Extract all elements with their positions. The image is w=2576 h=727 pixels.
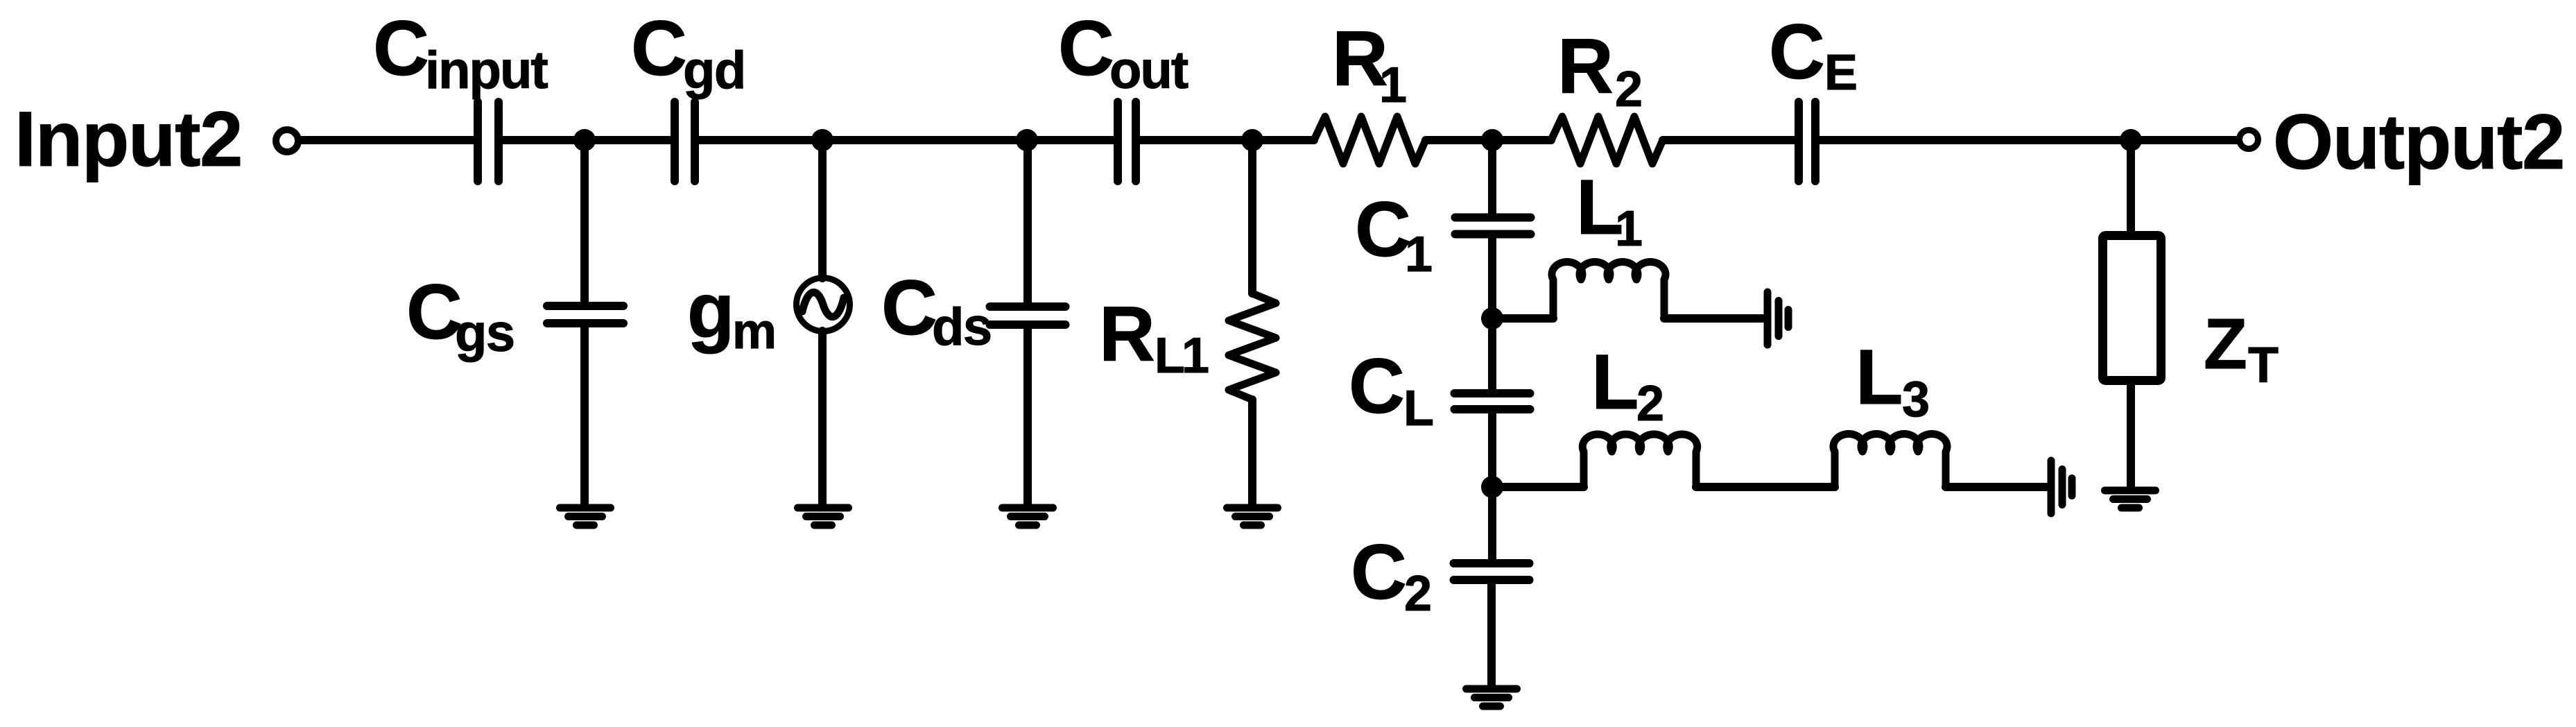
svg-text:gd: gd [683,41,745,100]
svg-text:2: 2 [1636,376,1664,431]
svg-text:m: m [732,304,777,359]
svg-text:1: 1 [1379,58,1407,113]
svg-text:L1: L1 [1155,328,1209,384]
svg-text:g: g [687,267,734,354]
svg-text:Z: Z [2204,304,2247,384]
svg-text:Input2: Input2 [15,96,242,182]
svg-text:out: out [1109,41,1188,100]
svg-text:E: E [1824,45,1858,101]
svg-text:T: T [2248,338,2279,393]
svg-text:L: L [1856,334,1903,420]
svg-text:input: input [425,41,548,100]
svg-text:C: C [1058,5,1114,92]
svg-text:Output2: Output2 [2273,99,2564,185]
svg-text:3: 3 [1902,372,1930,427]
svg-text:C: C [1769,8,1825,95]
svg-text:2: 2 [1404,566,1432,622]
svg-text:C: C [631,5,687,92]
svg-text:C: C [1349,343,1405,429]
svg-text:C: C [1351,529,1407,615]
svg-text:2: 2 [1615,62,1643,117]
svg-text:ds: ds [932,298,992,357]
svg-text:L: L [1403,381,1434,436]
svg-text:C: C [406,268,463,355]
svg-text:1: 1 [1405,227,1433,282]
svg-text:C: C [1355,186,1411,273]
svg-text:gs: gs [455,304,515,363]
svg-text:C: C [373,5,429,92]
svg-text:L: L [1591,339,1639,425]
svg-text:1: 1 [1615,201,1643,257]
svg-text:C: C [881,264,937,351]
svg-text:R: R [1099,291,1155,377]
svg-text:R: R [1557,23,1614,110]
